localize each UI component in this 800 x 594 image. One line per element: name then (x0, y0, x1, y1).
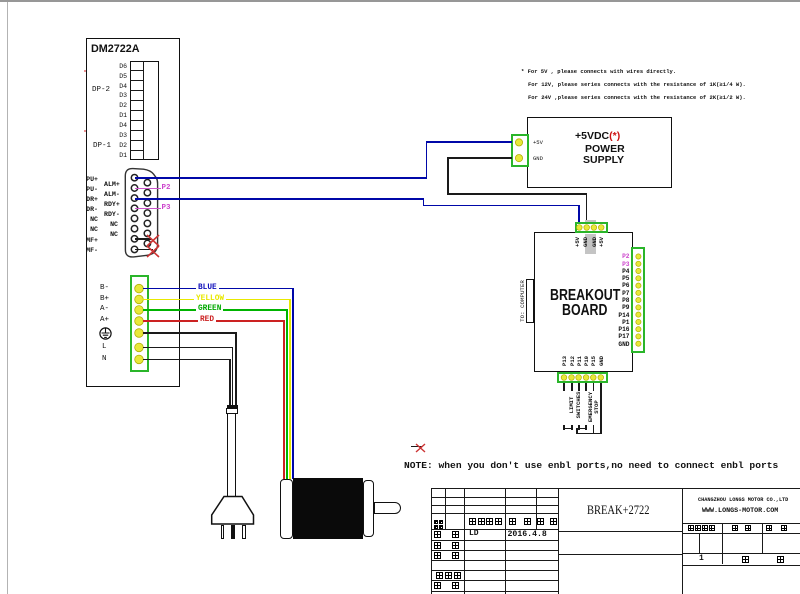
header 日 期 (537, 518, 557, 525)
wire A: DB9 pin1 to +5V (135, 177, 427, 179)
sub cells (699, 533, 700, 553)
header 等级标记 (688, 525, 715, 531)
wire B: DB9 pin3 to breakout +5V (135, 198, 424, 200)
wire green (143, 309, 288, 311)
LIMIT label (570, 397, 576, 414)
motor left cap (280, 479, 293, 539)
wire GND black (447, 157, 512, 159)
right section (682, 488, 683, 594)
NOTE text (404, 461, 778, 471)
row 批 准 (434, 582, 459, 589)
motor right cap (363, 480, 374, 537)
middle section BREAK+2722 (558, 531, 682, 532)
label +5V (533, 140, 543, 146)
GND wire down (600, 383, 602, 434)
SWITCHES label (576, 392, 582, 419)
wire N black (143, 359, 230, 361)
DIP switch block (130, 61, 160, 161)
tiny cell glyphs (434, 520, 443, 524)
plug prong left (221, 525, 225, 539)
stubs (563, 383, 565, 391)
2016.4.8 (508, 531, 547, 539)
DIP labels D6..D1 D4..D1 (113, 62, 127, 162)
stub wire pin8 (135, 249, 153, 251)
wire red (143, 320, 283, 322)
U bracket 2 (578, 425, 580, 430)
bottom connector (557, 372, 608, 383)
header 重 量 (732, 525, 751, 531)
label BREAKOUT (550, 288, 620, 304)
red X mark 1 (146, 234, 160, 247)
green terminal block (130, 275, 149, 373)
1 (699, 555, 704, 563)
red mark (411, 446, 422, 447)
motor shaft (374, 502, 401, 514)
label GND (533, 156, 543, 162)
top connector labels (575, 237, 581, 247)
left col lines (431, 488, 432, 594)
stub to bus (576, 428, 578, 435)
LD (469, 530, 479, 538)
left section horizontals (431, 497, 559, 498)
plug cable sleeve (227, 413, 236, 497)
wire blue (143, 288, 294, 290)
terminal pins (131, 281, 148, 367)
gray band (585, 220, 596, 253)
DB9 pin labels col1 (86, 175, 98, 256)
header 比 例 (766, 525, 787, 531)
header 更改单号 (469, 518, 502, 525)
bottom connector labels (562, 355, 568, 365)
wire yellow (143, 299, 291, 301)
table outer top (431, 488, 800, 489)
DB9 pin labels col2 (104, 180, 118, 241)
wire earth black (143, 332, 237, 334)
terminal labels (100, 285, 109, 293)
note line 3 (528, 95, 746, 101)
label BOARD (562, 303, 607, 319)
row 工 艺 (434, 552, 459, 559)
label SUPPLY (583, 155, 624, 166)
header 签 名 (509, 518, 531, 525)
stub wire pin7 (135, 238, 151, 240)
plug prong middle (231, 525, 235, 539)
right pin labels (610, 253, 630, 347)
label POWER (585, 144, 625, 155)
red X mark 2 (146, 245, 160, 258)
共 (742, 556, 749, 563)
company name (698, 498, 788, 503)
border frame top (0, 0, 800, 2)
plug wire clamp (227, 405, 238, 408)
driver box DM2722A (86, 38, 181, 387)
right connector (631, 247, 646, 353)
plug prong right (242, 525, 246, 539)
note line 2 (528, 82, 746, 88)
U bracket 1 (563, 425, 565, 430)
wire L black (143, 347, 233, 349)
row 标准化 (436, 572, 461, 579)
border frame left (7, 2, 8, 594)
note line 1 (521, 69, 676, 75)
label DP-2 (92, 87, 110, 95)
row 审 核 (434, 542, 459, 549)
motor body (293, 478, 363, 540)
张 (777, 556, 784, 563)
top connector (575, 222, 608, 233)
psu green connector (511, 134, 529, 167)
plug body (209, 495, 257, 527)
breakout board box (534, 232, 633, 372)
pin5 lower wire (593, 425, 595, 434)
earth ground symbol (99, 327, 112, 340)
STOP label (595, 400, 601, 413)
wire P3 magenta (135, 208, 161, 209)
psu pins (513, 136, 526, 164)
DB9 left pins (126, 170, 156, 260)
DB9 connector outline (120, 162, 165, 262)
gray band below connector (585, 234, 596, 254)
TO: COMPUTER port (526, 279, 534, 323)
EMERGENCY label (589, 391, 595, 421)
label DM2722A (91, 44, 140, 55)
label +5VDC (*) (575, 131, 620, 142)
row 设 计 (434, 531, 459, 538)
power supply box (527, 117, 672, 188)
wire P2 magenta (135, 188, 161, 189)
label DP-1 (93, 143, 111, 151)
plug cable sleeve cap (226, 408, 238, 414)
website (702, 508, 778, 515)
bus horizontal (576, 433, 602, 435)
